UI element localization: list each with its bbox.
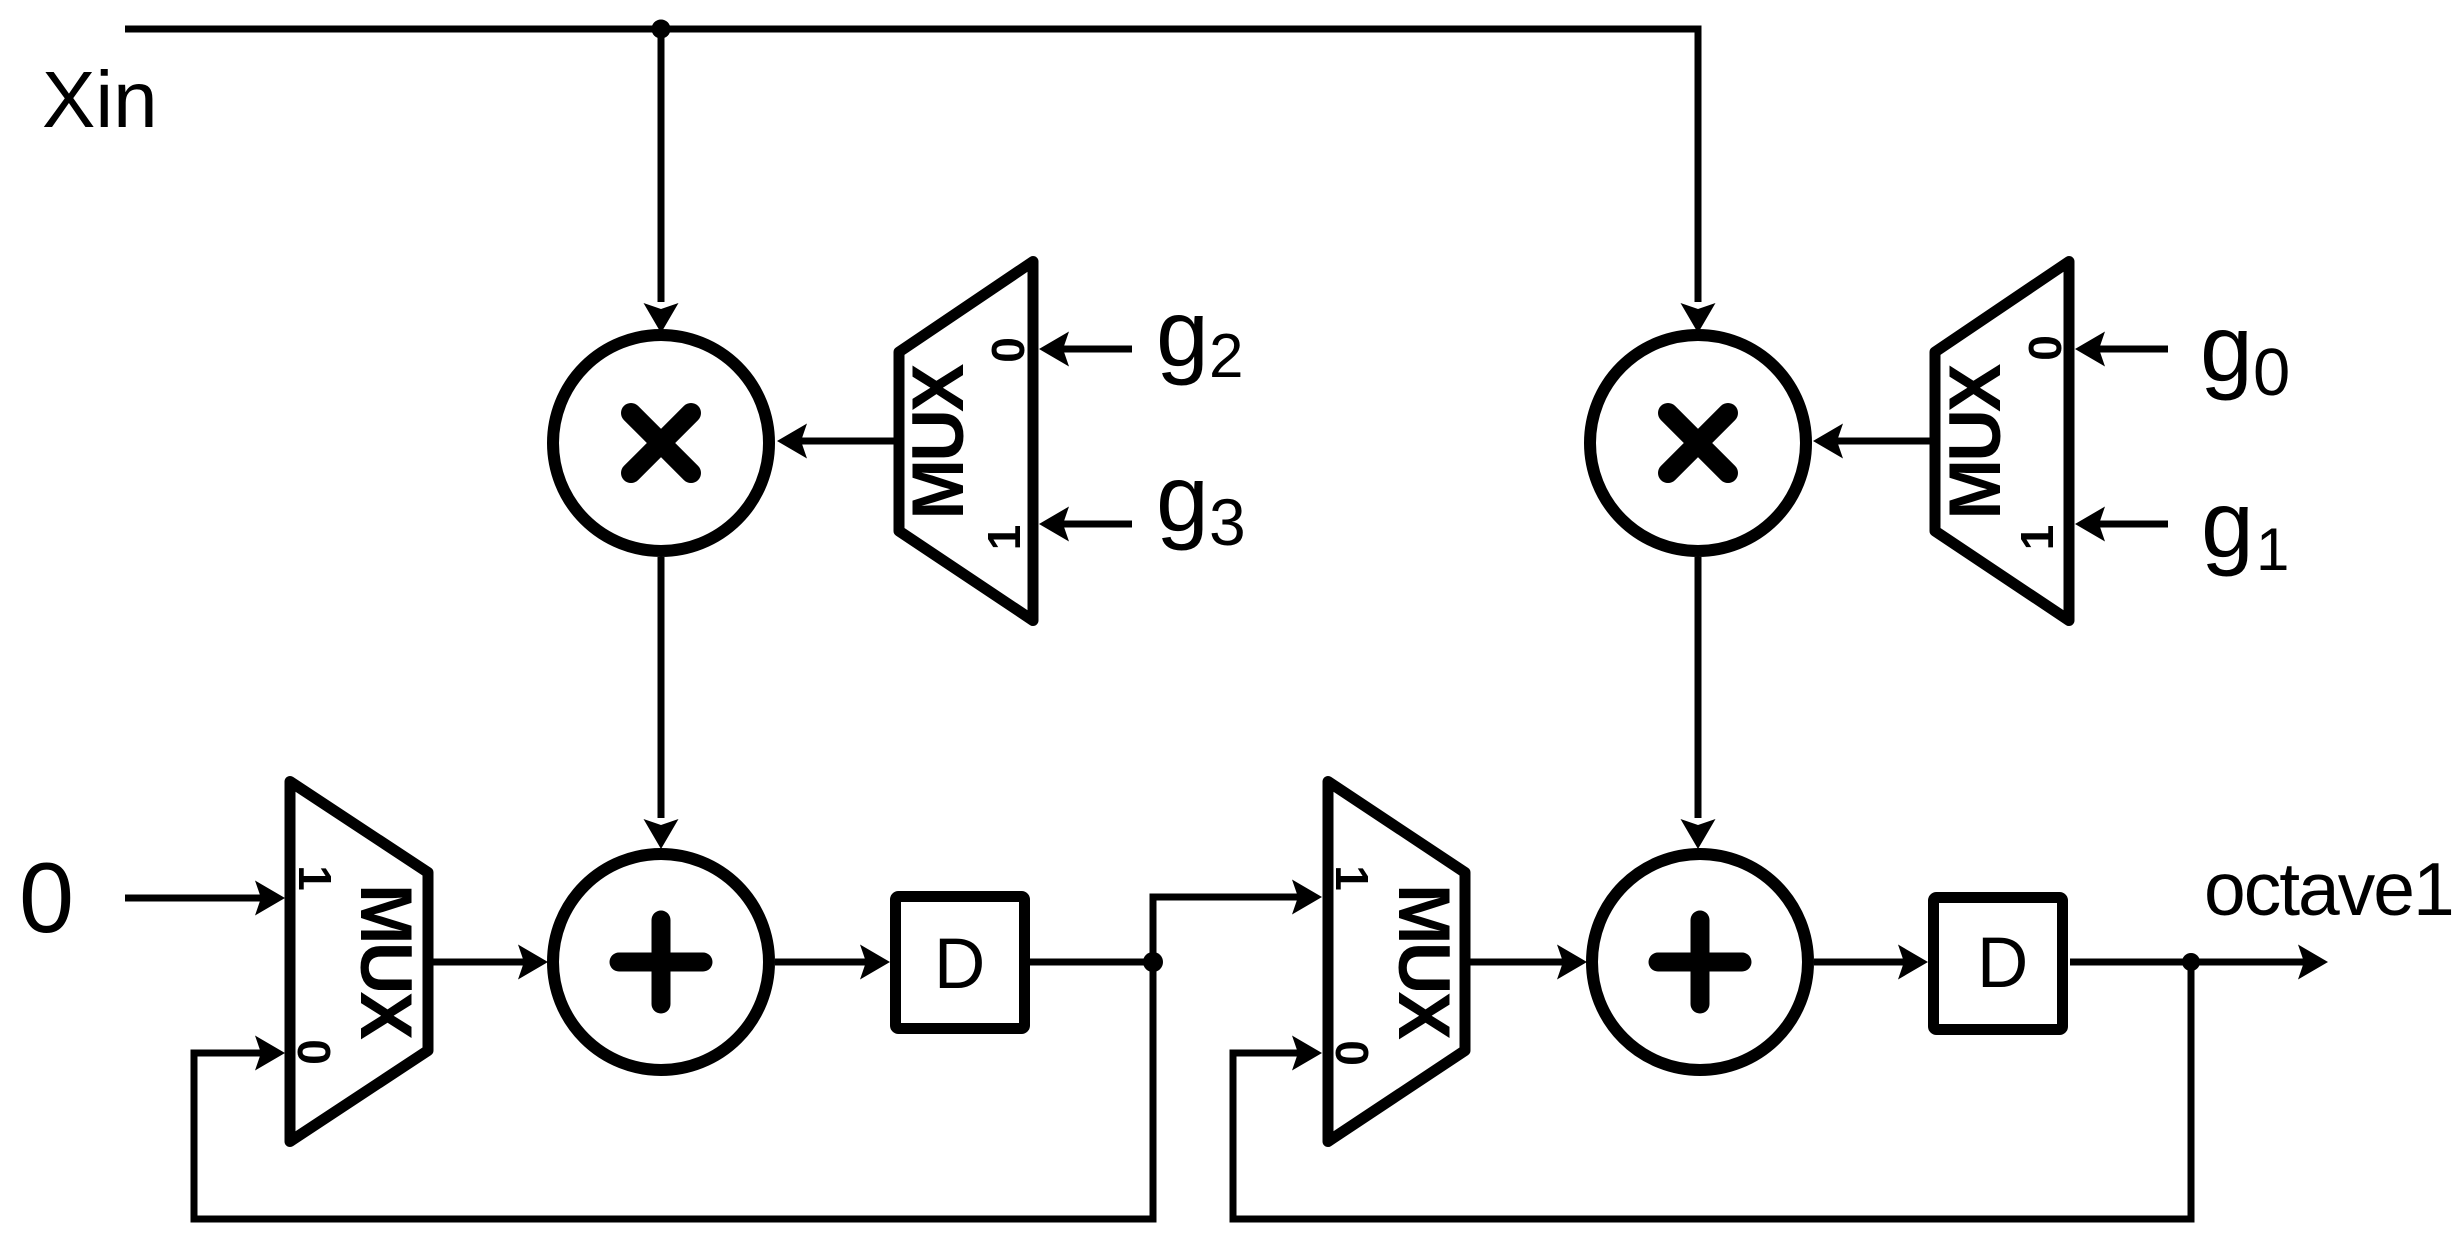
svg-text:D: D [934, 925, 985, 1004]
svg-text:0: 0 [1326, 1040, 1378, 1066]
svg-text:1: 1 [289, 865, 341, 891]
svg-text:0: 0 [288, 1039, 340, 1065]
svg-text:0: 0 [2019, 335, 2071, 361]
svg-text:Xin: Xin [42, 55, 158, 144]
svg-text:MUX: MUX [345, 884, 426, 1041]
svg-text:D: D [1977, 924, 2028, 1003]
svg-text:1: 1 [978, 525, 1030, 551]
svg-text:MUX: MUX [898, 363, 979, 520]
svg-text:0: 0 [19, 842, 74, 953]
svg-text:1: 1 [1326, 865, 1378, 891]
svg-text:2: 2 [1209, 322, 1243, 391]
svg-text:3: 3 [1209, 485, 1246, 559]
svg-text:MUX: MUX [1383, 884, 1464, 1041]
svg-text:MUX: MUX [1935, 363, 2016, 520]
svg-text:g: g [2200, 296, 2253, 402]
svg-text:g: g [2201, 472, 2254, 578]
svg-text:0: 0 [982, 337, 1034, 363]
svg-text:1: 1 [2011, 525, 2063, 551]
svg-text:g: g [1156, 446, 1209, 552]
svg-text:octave1: octave1 [2204, 847, 2453, 931]
svg-text:1: 1 [2256, 516, 2289, 583]
svg-text:0: 0 [2253, 335, 2290, 410]
svg-text:g: g [1156, 281, 1209, 387]
